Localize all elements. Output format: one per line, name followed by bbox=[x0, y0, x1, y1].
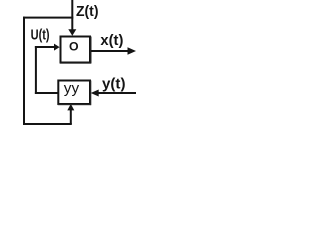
arrowhead into UU bottom bbox=[67, 104, 74, 111]
block UU shadow edges bbox=[58, 104, 91, 105]
block UU bbox=[58, 81, 90, 105]
svg-text:Z(t): Z(t) bbox=[76, 3, 99, 20]
block O bbox=[61, 37, 91, 63]
arrowhead U(t) into O left bbox=[54, 44, 60, 51]
wire up into UU bottom bbox=[70, 110, 72, 125]
wire Z(t) vertical drop bbox=[71, 0, 73, 30]
svg-text:уу: уу bbox=[64, 81, 80, 97]
svg-text:x(t): x(t) bbox=[100, 32, 123, 49]
wire outer top horizontal (Z branch) bbox=[23, 17, 73, 19]
svg-text:y(t): y(t) bbox=[102, 75, 126, 92]
block O shadow edges bbox=[60, 63, 91, 64]
wire y(t) input bbox=[98, 92, 136, 94]
svg-text:O: O bbox=[69, 40, 79, 54]
wire outer left vertical bbox=[23, 17, 25, 125]
svg-text:U(t): U(t) bbox=[31, 27, 50, 44]
arrowhead Z into O top bbox=[68, 29, 76, 35]
wire U(t) horizontal into O bbox=[35, 46, 55, 48]
wire outer bottom horizontal bbox=[23, 123, 72, 125]
arrowhead y(t) into UU right bbox=[91, 90, 99, 97]
wire x(t) output bbox=[91, 50, 128, 52]
arrowhead x(t) right bbox=[128, 47, 137, 54]
wire U(t) corner vertical bbox=[35, 46, 37, 94]
wire UU feedback horizontal bbox=[35, 92, 59, 94]
